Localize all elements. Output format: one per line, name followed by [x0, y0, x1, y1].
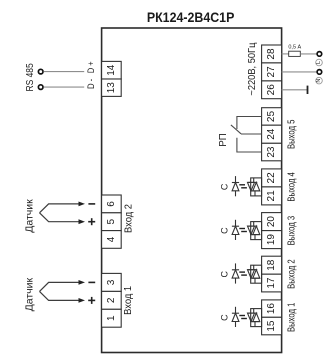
triac box (Выход 4) [251, 178, 262, 196]
terminal 28 [262, 45, 282, 63]
svg-text:15: 15 [266, 320, 277, 332]
svg-text:13: 13 [106, 82, 117, 94]
wire fuse to L circle [300, 53, 317, 55]
svg-text:С: С [220, 314, 230, 321]
plus sign (Вход 1) [88, 297, 95, 304]
svg-text:2: 2 [106, 297, 117, 303]
svg-text:L: L [316, 61, 322, 64]
terminal 16 [262, 300, 282, 317]
optocoupler LED (Выход 2) [232, 263, 239, 283]
relay contact arm [231, 125, 241, 134]
svg-text:С: С [220, 270, 230, 277]
terminal 3 [102, 273, 122, 291]
triac symbol (Выход 3) [248, 222, 260, 240]
circled letter L [316, 59, 323, 66]
svg-text:N: N [316, 79, 322, 83]
svg-text:Датчик: Датчик [24, 277, 35, 311]
svg-text:0,5 А: 0,5 А [288, 44, 301, 50]
triac box (Выход 1) [251, 309, 262, 327]
triac symbol (Выход 4) [248, 178, 260, 196]
svg-text:3: 3 [106, 279, 117, 285]
svg-text:D -: D - [86, 79, 96, 89]
wire fork Вход 2 [40, 204, 80, 222]
svg-text:5: 5 [106, 218, 117, 224]
wire L (terminal 28 to fuse) [282, 53, 289, 55]
terminal 1 [102, 309, 122, 327]
svg-text:RS 485: RS 485 [25, 63, 36, 92]
plus sign (Вход 2) [88, 218, 95, 225]
terminal 24 [262, 125, 282, 143]
terminal 14 [102, 61, 122, 79]
svg-text:Выход 1: Выход 1 [286, 302, 297, 332]
svg-text:22: 22 [266, 172, 277, 184]
terminal 22 [262, 169, 282, 187]
wire fork Вход 1 [40, 282, 80, 300]
terminal 26 [262, 81, 282, 99]
triac box (Выход 3) [251, 222, 262, 240]
optocoupler LED (Выход 4) [232, 176, 239, 196]
wire terminal 25 to contact [237, 117, 262, 130]
minus sign (Вход 2) [88, 203, 95, 205]
svg-text:Вход 2: Вход 2 [123, 204, 134, 233]
svg-text:РП: РП [218, 133, 229, 146]
svg-text:С: С [220, 227, 230, 234]
svg-text:6: 6 [106, 201, 117, 207]
terminal 27 [262, 63, 282, 81]
optocoupler LED (Выход 3) [232, 220, 239, 240]
svg-text:D +: D + [86, 61, 96, 73]
arrowhead to minus (Вход 1) [79, 280, 86, 285]
svg-text:РК124-2В4С1Р: РК124-2В4С1Р [147, 9, 235, 25]
svg-text:25: 25 [266, 111, 277, 123]
wire N (terminal 27) [282, 71, 318, 73]
wire terminal 23 to contact [237, 138, 262, 152]
terminal 15 [262, 317, 282, 335]
svg-text:20: 20 [266, 216, 277, 228]
svg-text:27: 27 [266, 66, 277, 78]
terminal 6 [102, 195, 122, 213]
terminal 19 [262, 231, 282, 249]
svg-text:24: 24 [266, 128, 277, 140]
terminal circle N [317, 70, 322, 75]
fuse FU1 0,5 А [288, 44, 301, 56]
svg-text:18: 18 [266, 259, 277, 271]
wire contact to terminal 24 [241, 133, 262, 135]
terminal 17 [262, 274, 282, 292]
svg-text:Выход 3: Выход 3 [286, 216, 297, 246]
svg-text:С: С [220, 183, 230, 190]
earth bar [307, 86, 309, 94]
triac symbol (Выход 2) [248, 265, 260, 283]
RS-485 terminal circle D+ [38, 69, 43, 74]
circled letter N [316, 77, 323, 84]
terminal 2 [102, 291, 122, 309]
svg-text:Вход 1: Вход 1 [123, 285, 134, 314]
terminal 20 [262, 213, 282, 231]
svg-text:23: 23 [266, 146, 277, 158]
arrowhead to plus (Вход 2) [79, 219, 86, 224]
svg-text:26: 26 [266, 84, 277, 96]
terminal 4 [102, 231, 122, 249]
svg-text:~220В, 50Гц: ~220В, 50Гц [247, 42, 258, 95]
optical arrows (Выход 3) [239, 229, 247, 232]
svg-text:19: 19 [266, 234, 277, 246]
svg-text:16: 16 [266, 303, 277, 315]
triac box (Выход 2) [251, 265, 262, 283]
svg-text:Выход 4: Выход 4 [286, 172, 297, 202]
terminal 21 [262, 187, 282, 205]
svg-text:17: 17 [266, 277, 277, 289]
terminal 18 [262, 256, 282, 274]
svg-text:1: 1 [106, 315, 117, 321]
minus sign (Вход 1) [88, 281, 95, 283]
terminal 23 [262, 143, 282, 161]
svg-text:Выход 5: Выход 5 [286, 119, 297, 149]
wire D+ [44, 71, 85, 73]
svg-text:Датчик: Датчик [24, 199, 35, 233]
device outline [102, 28, 282, 353]
terminal 13 [102, 79, 122, 96]
terminal 25 [262, 108, 282, 126]
terminal 5 [102, 213, 122, 231]
wire earth (terminal 26) [282, 89, 308, 91]
triac symbol (Выход 1) [248, 309, 260, 327]
svg-text:14: 14 [106, 64, 117, 76]
svg-text:21: 21 [266, 190, 277, 202]
wire D- [44, 86, 85, 88]
arrowhead to plus (Вход 1) [79, 298, 86, 303]
optical arrows (Выход 4) [239, 185, 247, 188]
optical arrows (Выход 2) [239, 272, 247, 275]
svg-text:4: 4 [106, 236, 117, 242]
arrowhead to minus (Вход 2) [79, 202, 86, 207]
RS-485 terminal circle D- [38, 85, 43, 90]
optical arrows (Выход 1) [239, 316, 247, 319]
svg-text:28: 28 [266, 48, 277, 60]
optocoupler LED (Выход 1) [232, 307, 239, 327]
terminal circle L [317, 52, 322, 57]
svg-text:Выход 2: Выход 2 [286, 259, 297, 289]
